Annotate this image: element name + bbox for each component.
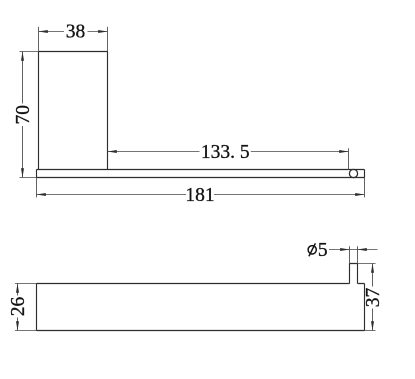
arrows dim 181 (37, 193, 46, 196)
dim 37 line (372, 264, 374, 331)
dim 38 line (39, 31, 108, 33)
phi symbol drawn (308, 243, 316, 256)
dim 38 extension lines (39, 27, 108, 52)
dim 181 extension lines (37, 178, 365, 198)
arrows dim 133.5 (108, 150, 117, 153)
dim phi5 line (329, 249, 378, 251)
dim texts bottom view (8, 240, 384, 316)
dim phi5 extensions (350, 246, 358, 263)
dim 133.5 right extension (348, 148, 350, 170)
svg-text:26: 26 (8, 297, 29, 317)
dim 70 line (22, 52, 24, 178)
arrows phi5 (340, 248, 349, 251)
svg-text:5: 5 (318, 240, 328, 261)
dim 37 extensions (358, 264, 376, 331)
dim texts top view (13, 22, 250, 207)
svg-text:38: 38 (66, 22, 86, 43)
rail side outline (37, 284, 365, 331)
arrows dim 38 (39, 30, 48, 33)
dim 26 line (17, 284, 19, 331)
pin (phi5) (350, 264, 358, 284)
dim 133.5 line (108, 151, 349, 153)
dim 26 extensions (15, 284, 37, 331)
svg-text:70: 70 (13, 105, 34, 125)
pin circle at rail end (349, 169, 357, 177)
svg-text:133. 5: 133. 5 (201, 142, 250, 163)
arrows 37 (371, 264, 374, 273)
dim 181 line (37, 194, 365, 196)
arrows 26 (16, 284, 19, 293)
wall plate outline (39, 52, 108, 170)
svg-text:181: 181 (185, 185, 214, 206)
dim 70 extension lines (19, 52, 38, 178)
rail bar outline (37, 170, 365, 178)
arrows dim 70 (21, 52, 24, 61)
svg-text:37: 37 (363, 288, 384, 308)
